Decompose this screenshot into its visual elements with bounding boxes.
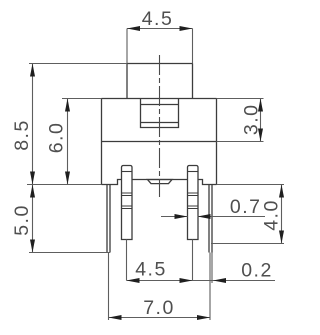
dim 8.5 line [32, 64, 34, 185]
svg-text:5.0: 5.0 [11, 204, 33, 236]
left bracket leg [107, 185, 110, 253]
body bottom profile [102, 180, 217, 185]
ext: 4.5 top right [192, 29, 194, 64]
plunger right side [192, 64, 194, 99]
arrow 4.0 up [279, 185, 284, 198]
dim 6.0 line [67, 99, 69, 185]
left pin body [121, 166, 132, 240]
left pin cap line [122, 171, 133, 173]
body left edge [101, 99, 103, 185]
arrow 4.5 bottom left [127, 278, 140, 283]
plunger top edge [127, 63, 193, 65]
dim 4.5 top line [127, 28, 193, 30]
svg-text:0.7: 0.7 [230, 196, 262, 218]
dim bottom 4.5/0.2 line [127, 280, 276, 282]
plunger inner step line 1 [141, 104, 179, 106]
arrow 5.0 down [30, 240, 35, 253]
ext: 7.0 left [108, 253, 110, 321]
arrow 4.5 top left [127, 26, 140, 31]
ext: body top to left (6.0) [62, 98, 102, 100]
svg-text:8.5: 8.5 [11, 119, 33, 151]
body top edge [102, 98, 217, 100]
ext: 0.2 right [211, 253, 213, 284]
dim 4.0 line [281, 185, 283, 244]
dim 0.7 left line [161, 216, 188, 218]
dim 3.0 line [260, 99, 262, 142]
ext: body top to right (3.0) [217, 98, 264, 100]
arrow 3.0 down [258, 129, 263, 142]
ext: 7.0 right [209, 253, 211, 321]
plunger inner step line 2 [141, 122, 179, 124]
arrow 0.2 pointing left [213, 278, 226, 283]
left pin bend lines [122, 193, 133, 209]
svg-text:4.5: 4.5 [135, 259, 167, 281]
right pin bend lines [188, 193, 199, 209]
contact dome [148, 180, 173, 184]
plunger inner box [141, 99, 179, 128]
plunger left side [126, 64, 128, 99]
arrow 5.0 up [30, 185, 35, 198]
arrow 7.0 left [109, 315, 122, 320]
ext: body bottom to right (4.0) [217, 184, 285, 186]
svg-text:4.5: 4.5 [142, 8, 174, 30]
right pin body [188, 166, 199, 240]
arrow 8.5 down [30, 172, 35, 185]
body right edge [216, 99, 218, 185]
ext: right pin lead (4.5 bottom) [192, 240, 194, 281]
svg-text:3.0: 3.0 [241, 103, 263, 135]
arrow 6.0 up [65, 99, 70, 112]
ext: plunger top to 8.5 dim [29, 63, 127, 65]
arrow 6.0 down [65, 172, 70, 185]
ext: body bottom to left (8.5/6.0/5.0) [27, 184, 102, 186]
svg-text:7.0: 7.0 [143, 297, 175, 319]
arrow 4.0 down [279, 231, 284, 244]
arrow 4.5 top right [180, 26, 193, 31]
arrow 0.7 pointing left [198, 214, 211, 219]
ext: left pin lead (4.5 bottom) [126, 240, 128, 281]
arrow 7.0 right [197, 315, 210, 320]
arrow 4.5 bottom right [180, 278, 193, 283]
svg-text:0.2: 0.2 [241, 260, 273, 282]
right pin cap line [188, 171, 199, 173]
ext: bracket bottom to left (5.0) [29, 252, 110, 254]
arrow 3.0 up [258, 99, 263, 112]
dim 5.0 line [32, 185, 34, 253]
dim 0.7 right line [198, 216, 266, 218]
body seam line [102, 141, 217, 143]
svg-text:4.0: 4.0 [261, 199, 283, 231]
ext: pin bottom to right (4.0) [211, 243, 284, 245]
ext: seam to right (3.0) [217, 141, 264, 143]
arrow 0.7 pointing right [175, 214, 188, 219]
ext: 4.5 top left [126, 29, 128, 64]
vertical centerline [159, 55, 161, 197]
dim 7.0 line [109, 317, 211, 319]
right bracket leg [209, 185, 212, 253]
arrow 8.5 up [30, 64, 35, 77]
svg-text:6.0: 6.0 [46, 122, 68, 154]
